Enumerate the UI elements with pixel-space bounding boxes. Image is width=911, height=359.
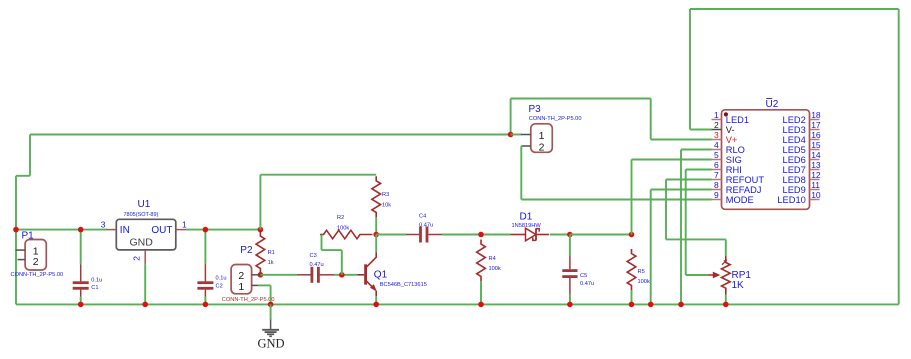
wire: P3 pin2 down and right to U2 MODE — [521, 146, 711, 200]
junction: C5 top node — [567, 232, 573, 238]
svg-text:LED4: LED4 — [783, 135, 806, 145]
junction: RLO wire at rail — [678, 302, 684, 308]
svg-text:17: 17 — [811, 120, 821, 130]
U2 pin 10 (LED10) — [777, 190, 821, 205]
svg-text:0.47u: 0.47u — [310, 262, 324, 268]
svg-text:3: 3 — [714, 130, 719, 140]
junction: R5 top node — [629, 232, 635, 238]
svg-text:R5: R5 — [638, 269, 645, 275]
svg-text:13: 13 — [811, 160, 821, 170]
svg-text:R2: R2 — [337, 215, 344, 221]
svg-text:Q1: Q1 — [374, 269, 388, 280]
wire: U1 GND to ground rail — [144, 265, 146, 305]
svg-text:1k: 1k — [268, 260, 274, 266]
svg-text:P1: P1 — [22, 231, 35, 242]
junction: REFADJ wire at rail — [648, 302, 654, 308]
wire: C5 node to R5 node — [570, 234, 632, 236]
svg-text:12: 12 — [811, 170, 821, 180]
U1 pin 1 (OUT) stub — [176, 220, 187, 230]
svg-text:GND: GND — [130, 237, 154, 249]
junction: input rail left corner — [13, 227, 19, 233]
svg-text:SIG: SIG — [726, 155, 742, 165]
U2 pin 12 (LED8) — [783, 170, 821, 185]
U2 pin 6 (RHI) — [712, 160, 742, 175]
svg-text:2: 2 — [539, 142, 545, 154]
U2 pin 3 (V+) — [712, 130, 738, 145]
svg-text:P2: P2 — [240, 245, 253, 256]
svg-text:LED7: LED7 — [783, 165, 806, 175]
svg-text:C5: C5 — [580, 273, 587, 279]
junction: U1 GND at rail — [142, 302, 148, 308]
junction: R4 top node — [478, 232, 484, 238]
svg-text:8: 8 — [714, 180, 719, 190]
svg-text:REFADJ: REFADJ — [726, 185, 762, 195]
wire: U2 RLO to ground rail — [681, 150, 712, 305]
svg-text:1K: 1K — [732, 280, 745, 291]
capacitor C3 0.47u — [297, 253, 334, 283]
svg-text:C4: C4 — [419, 213, 426, 219]
svg-text:LED2: LED2 — [783, 115, 806, 125]
junction: C5 at rail — [567, 302, 573, 308]
svg-text:100k: 100k — [337, 225, 349, 231]
P1 pin 1 stub — [16, 249, 26, 251]
svg-text:7805(SOT-89): 7805(SOT-89) — [124, 212, 159, 218]
svg-text:2: 2 — [132, 256, 142, 261]
wire: RP1 bottom to rail — [725, 295, 727, 305]
svg-text:LED3: LED3 — [783, 125, 806, 135]
wire: U2 REFADJ to ground rail — [651, 190, 712, 305]
wire: P2 pin1 to ground rail — [258, 285, 271, 304]
svg-text:5: 5 — [714, 150, 719, 160]
svg-text:U1: U1 — [138, 199, 151, 210]
capacitor C4 0.47u — [406, 213, 442, 242]
wire: R4 bottom to rail — [480, 281, 482, 304]
svg-text:R3: R3 — [382, 192, 389, 198]
wire: U2 SIG to detector node — [632, 160, 712, 235]
connector P1 body — [11, 231, 64, 278]
svg-text:U2: U2 — [766, 99, 779, 110]
svg-text:C2: C2 — [216, 283, 223, 289]
junction: C1 bottom — [78, 302, 84, 308]
junction: Q1 emitter at rail — [373, 302, 379, 308]
svg-text:R1: R1 — [268, 250, 275, 256]
svg-text:1: 1 — [238, 281, 244, 293]
svg-text:LED8: LED8 — [783, 175, 806, 185]
U2 pin 11 (LED9) — [783, 180, 821, 195]
svg-text:11: 11 — [811, 180, 820, 190]
wire: collector node to C4 — [376, 234, 406, 236]
U2 pin 18 (LED2) — [783, 110, 821, 125]
svg-text:OUT: OUT — [151, 225, 172, 236]
svg-text:MODE: MODE — [726, 195, 754, 205]
svg-text:CONN-TH_2P-P5.00: CONN-TH_2P-P5.00 — [222, 297, 275, 303]
regulator U1 7805 body — [116, 199, 176, 250]
junction: R5 at rail — [629, 302, 635, 308]
wire: +5V up and over to R3 — [260, 175, 376, 230]
svg-text:1: 1 — [182, 220, 187, 230]
wire: R5 bottom to rail — [631, 290, 633, 304]
junction: Q1 base node — [339, 272, 345, 278]
wire: bottom ground rail — [16, 303, 899, 305]
wire: left vertical input rail — [16, 135, 30, 305]
svg-text:14: 14 — [811, 150, 821, 160]
junction: RP1 at rail — [723, 302, 729, 308]
svg-text:1: 1 — [714, 110, 719, 120]
svg-text:100k: 100k — [489, 266, 501, 272]
svg-text:LED1: LED1 — [726, 115, 749, 125]
svg-text:RLO: RLO — [726, 145, 745, 155]
U2 pin 2 (V-) — [712, 120, 735, 135]
svg-text:LED9: LED9 — [783, 185, 806, 195]
svg-text:LED6: LED6 — [783, 155, 806, 165]
wire: R2 left to base node staircase — [322, 235, 342, 275]
capacitor C2 0.1u — [197, 230, 226, 305]
svg-text:7: 7 — [714, 170, 719, 180]
P3 pin 1 stub — [521, 134, 531, 136]
svg-text:10k: 10k — [382, 203, 391, 209]
svg-text:0.47u: 0.47u — [419, 222, 433, 228]
svg-text:RHI: RHI — [726, 165, 742, 175]
svg-text:1: 1 — [539, 130, 545, 142]
svg-text:GND: GND — [257, 337, 284, 351]
junction: R1 bottom / P2 pin 2 — [258, 272, 264, 278]
svg-text:3: 3 — [101, 220, 106, 230]
svg-text:18: 18 — [811, 110, 821, 120]
connector P3 body — [529, 104, 582, 154]
svg-text:15: 15 — [811, 140, 821, 150]
capacitor C1 0.1u — [73, 230, 103, 305]
junction: collector node — [373, 232, 379, 238]
ground GND symbol — [257, 304, 284, 350]
wire: D1 cathode to C5 node — [550, 234, 570, 236]
U2 pin 5 (SIG) — [712, 150, 742, 165]
svg-text:0.1u: 0.1u — [216, 275, 227, 281]
connector P2 body — [222, 245, 275, 303]
P1 pin 2 stub — [18, 259, 26, 261]
svg-text:REFOUT: REFOUT — [726, 175, 765, 185]
U2 pin 8 (REFADJ) — [712, 180, 762, 195]
junction: P3 pin 1 node — [508, 132, 514, 138]
wire: U1 OUT +5V rail — [186, 229, 260, 231]
svg-text:IN: IN — [120, 225, 130, 236]
svg-text:LED5: LED5 — [783, 145, 806, 155]
U2 pin 14 (LED6) — [783, 150, 821, 165]
U2 pin 9 (MODE) — [712, 190, 754, 205]
U2 pin 7 (REFOUT) — [712, 170, 765, 185]
wire: input rail to U1 IN — [16, 229, 107, 231]
wire: U2 RHI to RP1 wiper — [686, 170, 712, 276]
P2 pin 2 stub — [252, 274, 261, 276]
junction: C2 bottom — [203, 302, 209, 308]
resistor R2 100k — [320, 215, 373, 239]
svg-text:CONN-TH_2P-P5.00: CONN-TH_2P-P5.00 — [529, 116, 582, 122]
U1 pin 2 (GND) stub — [132, 250, 146, 265]
svg-text:C3: C3 — [310, 253, 317, 259]
wire: junction to P3 pin1 — [511, 134, 522, 136]
capacitor C5 0.47u — [562, 235, 594, 305]
U2 pin 15 (LED5) — [783, 140, 821, 155]
svg-text:16: 16 — [811, 130, 821, 140]
U2 pin 1 (LED1) — [712, 110, 750, 125]
diode D1 1N5819HW — [511, 211, 549, 240]
IC U2 body — [722, 98, 810, 209]
svg-text:CONN-TH_2P-P5.00: CONN-TH_2P-P5.00 — [11, 272, 64, 278]
junction: C2 top — [203, 227, 209, 233]
svg-text:4: 4 — [714, 140, 719, 150]
svg-text:2: 2 — [714, 120, 719, 130]
resistor R4 100k — [477, 240, 501, 282]
wire: long top horizontal from P1 loop to P3 junction (node V+) — [30, 134, 511, 136]
resistor R5 100k — [627, 249, 650, 290]
svg-text:D1: D1 — [520, 211, 533, 222]
wire: C3 to Q1 base node — [334, 274, 358, 276]
junction: P2 ground at rail — [268, 302, 274, 308]
svg-text:0.47u: 0.47u — [580, 281, 594, 287]
junction: C1 top — [78, 227, 84, 233]
svg-text:9: 9 — [714, 190, 719, 200]
junction: R1 top (+5V) — [258, 227, 264, 233]
svg-text:2: 2 — [33, 256, 39, 268]
svg-text:P3: P3 — [529, 104, 542, 115]
wire: U2 V- loop around top and right — [690, 9, 899, 304]
wire: R3 bottom to collector node — [375, 217, 377, 235]
U2 pin 4 (RLO) — [712, 140, 745, 155]
junction: R4 at rail — [478, 302, 484, 308]
svg-text:1N5819HW: 1N5819HW — [512, 223, 542, 229]
svg-text:100k: 100k — [638, 279, 650, 285]
resistor R1 1k — [256, 232, 275, 274]
P2 pin 1 stub — [252, 284, 258, 286]
potentiometer RP1 1K — [707, 256, 751, 295]
U2 pin 13 (LED7) — [783, 160, 821, 175]
svg-text:V+: V+ — [726, 135, 738, 145]
svg-text:V-: V- — [726, 125, 735, 135]
P3 pin 2 stub — [521, 145, 531, 147]
svg-text:0.1u: 0.1u — [91, 278, 102, 284]
svg-text:BC546B_C713615: BC546B_C713615 — [380, 282, 427, 288]
wire: U2 REFOUT to RP1 top — [666, 180, 726, 257]
resistor R3 10k — [372, 176, 391, 217]
wire: P2/R1 node to C3 — [260, 274, 297, 276]
svg-text:10: 10 — [811, 190, 821, 200]
wire: C4 to R4 node — [442, 234, 511, 236]
svg-text:LED10: LED10 — [777, 195, 805, 205]
U1 pin 3 (IN) stub — [101, 220, 117, 230]
svg-text:C1: C1 — [91, 285, 98, 291]
transistor Q1 BC546B — [358, 235, 427, 305]
wire: node V+ up-over to U2 pin 3 — [511, 99, 712, 140]
U2 pin 16 (LED4) — [783, 130, 821, 145]
U2 pin 17 (LED3) — [783, 120, 821, 135]
svg-text:R4: R4 — [489, 256, 496, 262]
svg-text:6: 6 — [714, 160, 719, 170]
